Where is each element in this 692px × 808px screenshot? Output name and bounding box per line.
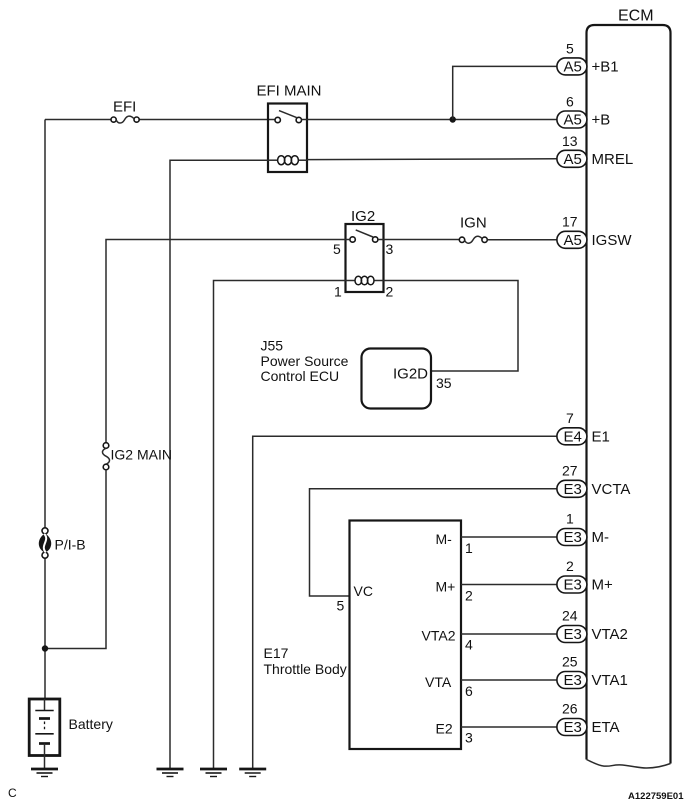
fuse IGN <box>459 236 487 243</box>
svg-text:2: 2 <box>465 588 473 604</box>
svg-text:ECM: ECM <box>618 8 654 25</box>
fusible link P/I-B <box>39 528 51 558</box>
wire: VCTA pin to throttle body VC pin 5 <box>310 489 557 596</box>
ECM pin 1 number <box>566 511 574 527</box>
node: battery junction <box>42 645 48 651</box>
svg-text:VC: VC <box>354 583 373 599</box>
throttle body E2 terminal label <box>436 721 453 737</box>
svg-text:IGSW: IGSW <box>592 232 633 249</box>
ECM pin 25 number <box>562 654 578 670</box>
throttle body M+ terminal label <box>436 579 456 595</box>
throttle body pin 2 label <box>465 588 473 604</box>
ECM pin 27 number <box>562 462 578 478</box>
fuse IGN label <box>460 215 487 232</box>
svg-text:3: 3 <box>465 730 473 746</box>
ECM pin 24 VTA2 connector <box>557 626 587 644</box>
svg-text:4: 4 <box>465 637 473 653</box>
wire: battery feed left vertical (battery to EFI fuse line) <box>44 120 46 700</box>
svg-text:5: 5 <box>337 598 345 614</box>
svg-text:E3: E3 <box>564 672 582 689</box>
svg-text:A5: A5 <box>564 232 582 249</box>
ECM VTA1 signal label <box>592 672 628 689</box>
wire: IG2 coil pin1 to ground <box>214 281 346 769</box>
relay IG2 coil <box>346 276 384 285</box>
wire: EFI fuse to EFI MAIN relay <box>45 119 275 121</box>
svg-text:26: 26 <box>562 701 578 717</box>
svg-text:M+: M+ <box>436 579 456 595</box>
svg-text:A122759E01: A122759E01 <box>628 791 684 802</box>
svg-text:Power Source: Power Source <box>261 353 349 369</box>
ECM VTA2 signal label <box>592 626 628 643</box>
svg-text:A5: A5 <box>564 58 582 75</box>
ground: E1 ground <box>239 769 266 777</box>
svg-text:E3: E3 <box>564 481 582 498</box>
node: +B / +B1 junction <box>450 116 456 122</box>
wire: IG2 switch pin3 to IGN fuse <box>378 239 460 241</box>
svg-text:E3: E3 <box>564 719 582 736</box>
wire: IGN fuse to IGSW pin <box>487 239 557 241</box>
svg-text:J55: J55 <box>261 338 284 354</box>
throttle body E17 box <box>350 521 462 750</box>
throttle body M- terminal label <box>436 531 453 547</box>
wire: throttle E2 to ECM ETA <box>461 726 557 728</box>
ECM E1 signal label <box>592 428 610 445</box>
svg-text:E4: E4 <box>564 428 582 445</box>
svg-text:E2: E2 <box>436 721 453 737</box>
throttle body pin 4 label <box>465 637 473 653</box>
throttle body VC terminal label <box>354 583 373 599</box>
svg-text:7: 7 <box>566 410 574 426</box>
fuse IG2 MAIN <box>102 443 109 470</box>
svg-text:VTA2: VTA2 <box>422 628 456 644</box>
relay IG2 box <box>346 224 384 292</box>
svg-text:1: 1 <box>566 511 574 527</box>
svg-text:IG2 MAIN: IG2 MAIN <box>111 447 172 463</box>
figure id A122759E01 <box>628 791 684 802</box>
relay IG2 pin 3 label <box>386 241 394 257</box>
J55 IG2D terminal label <box>393 366 428 383</box>
fuse IG2 MAIN label <box>111 447 172 463</box>
ECM pin 7 E1 connector <box>557 428 587 446</box>
svg-text:13: 13 <box>562 133 578 149</box>
wire: EFI MAIN coil to ground line <box>170 160 268 768</box>
svg-text:A5: A5 <box>564 151 582 168</box>
relay IG2 pin 1 label <box>334 284 342 300</box>
ECM pin 25 VTA1 connector <box>557 672 587 690</box>
svg-text:+B1: +B1 <box>592 58 619 75</box>
svg-text:IGN: IGN <box>460 215 487 232</box>
svg-text:E3: E3 <box>564 529 582 546</box>
wire: IG2 coil pin2 to J55 IG2D pin 35 <box>384 281 519 372</box>
svg-text:MREL: MREL <box>592 151 634 168</box>
svg-text:Battery: Battery <box>69 716 113 732</box>
J55 IG2D pin 35 label <box>436 375 452 391</box>
svg-text:27: 27 <box>562 462 578 478</box>
svg-text:35: 35 <box>436 375 452 391</box>
svg-text:EFI: EFI <box>113 99 136 116</box>
wire: EFI MAIN coil to MREL pin <box>307 158 557 161</box>
ground: EFI MAIN coil ground <box>157 769 184 777</box>
battery <box>29 699 60 756</box>
svg-text:IG2: IG2 <box>351 208 375 225</box>
ECM MREL signal label <box>592 151 634 168</box>
wire: IG2 switch pin5 to IG2 MAIN fuse vertical <box>106 240 350 443</box>
svg-text:E3: E3 <box>564 577 582 594</box>
relay IG2 label <box>351 208 375 225</box>
ECM pin 27 VCTA connector <box>557 480 587 498</box>
ECM pin 13 MREL connector <box>557 150 587 168</box>
wire: E1 pin to ground <box>253 436 557 768</box>
relay EFI MAIN coil <box>268 156 307 165</box>
ECM pin 1 M- connector <box>557 529 587 547</box>
figure note C <box>8 786 17 800</box>
svg-text:A5: A5 <box>564 112 582 129</box>
wire: battery negative to ground <box>44 756 46 769</box>
svg-text:3: 3 <box>386 241 394 257</box>
ECM pin 7 number <box>566 410 574 426</box>
ECM pin 26 ETA connector <box>557 719 587 737</box>
relay EFI MAIN switch contact <box>275 111 301 123</box>
ECM label <box>618 8 654 25</box>
ECM pin 17 number <box>562 213 578 229</box>
svg-text:1: 1 <box>465 540 473 556</box>
svg-text:+B: +B <box>592 112 611 129</box>
ECM box <box>587 25 671 768</box>
wire: IG2 MAIN fuse down to battery junction <box>45 470 106 649</box>
svg-text:M-: M- <box>592 529 610 546</box>
ECM pin 26 number <box>562 701 578 717</box>
throttle body pin 5 label <box>337 598 345 614</box>
ECM pin 17 IGSW connector <box>557 231 587 249</box>
svg-text:ETA: ETA <box>592 719 620 736</box>
svg-text:VTA1: VTA1 <box>592 672 628 689</box>
fuse EFI <box>111 116 139 123</box>
ECM pin 2 M+ connector <box>557 576 587 594</box>
ECM +B1 signal label <box>592 58 619 75</box>
svg-text:5: 5 <box>566 41 574 57</box>
ECM M+ signal label <box>592 577 613 594</box>
wire: throttle VTA2 to ECM VTA2 <box>461 633 557 635</box>
svg-text:Throttle Body: Throttle Body <box>264 661 347 677</box>
ECM pin 6 +B connector <box>557 111 587 129</box>
svg-text:VCTA: VCTA <box>592 481 631 498</box>
ground: battery ground <box>31 769 58 777</box>
svg-text:25: 25 <box>562 654 578 670</box>
relay EFI MAIN box <box>268 104 307 173</box>
ECM VCTA signal label <box>592 481 631 498</box>
ECM pin 13 number <box>562 133 578 149</box>
svg-text:6: 6 <box>465 683 473 699</box>
ECM +B signal label <box>592 112 611 129</box>
svg-text:EFI MAIN: EFI MAIN <box>257 83 322 100</box>
svg-text:M-: M- <box>436 531 453 547</box>
throttle body pin 3 label <box>465 730 473 746</box>
svg-text:5: 5 <box>333 241 341 257</box>
ECM M- signal label <box>592 529 610 546</box>
ECM pin 5 number <box>566 41 574 57</box>
J55 block label <box>261 338 349 385</box>
wire: throttle M+ to ECM M+ <box>461 584 557 586</box>
battery label <box>69 716 113 732</box>
wire: throttle M- to ECM M- <box>461 536 557 538</box>
svg-text:P/I-B: P/I-B <box>55 537 86 553</box>
relay EFI MAIN label <box>257 83 322 100</box>
relay IG2 pin 5 label <box>333 241 341 257</box>
ECM ETA signal label <box>592 719 620 736</box>
svg-text:M+: M+ <box>592 577 613 594</box>
throttle body VTA terminal label <box>425 674 452 690</box>
wire: throttle VTA to ECM VTA1 <box>461 679 557 681</box>
ECM pin 6 number <box>566 94 574 110</box>
svg-text:24: 24 <box>562 608 578 624</box>
svg-text:Control ECU: Control ECU <box>261 368 340 384</box>
wire: junction up to +B1 pin <box>453 66 557 119</box>
svg-text:2: 2 <box>566 558 574 574</box>
svg-text:VTA2: VTA2 <box>592 626 628 643</box>
ECM pin 24 number <box>562 608 578 624</box>
throttle body pin 6 label <box>465 683 473 699</box>
ground: IG2 coil ground <box>200 769 227 777</box>
fusible link P/I-B label <box>55 537 86 553</box>
svg-text:E17: E17 <box>264 645 289 661</box>
ECM pin 5 +B1 connector <box>557 58 587 76</box>
throttle body block label <box>264 645 347 677</box>
svg-text:C: C <box>8 786 17 800</box>
svg-text:17: 17 <box>562 213 578 229</box>
svg-text:E3: E3 <box>564 626 582 643</box>
relay IG2 switch contact <box>350 230 378 242</box>
wire: EFI MAIN switch output to +B junction and +B pin <box>302 119 557 121</box>
svg-text:E1: E1 <box>592 428 610 445</box>
J55 power source control ECU IG2D box <box>362 349 432 409</box>
throttle body VTA2 terminal label <box>422 628 456 644</box>
ECM IGSW signal label <box>592 232 633 249</box>
svg-text:VTA: VTA <box>425 674 452 690</box>
ECM pin 2 number <box>566 558 574 574</box>
svg-text:2: 2 <box>386 284 394 300</box>
svg-text:IG2D: IG2D <box>393 366 428 383</box>
svg-text:6: 6 <box>566 94 574 110</box>
svg-text:1: 1 <box>334 284 342 300</box>
throttle body pin 1 label <box>465 540 473 556</box>
fuse EFI label <box>113 99 136 116</box>
relay IG2 pin 2 label <box>386 284 394 300</box>
